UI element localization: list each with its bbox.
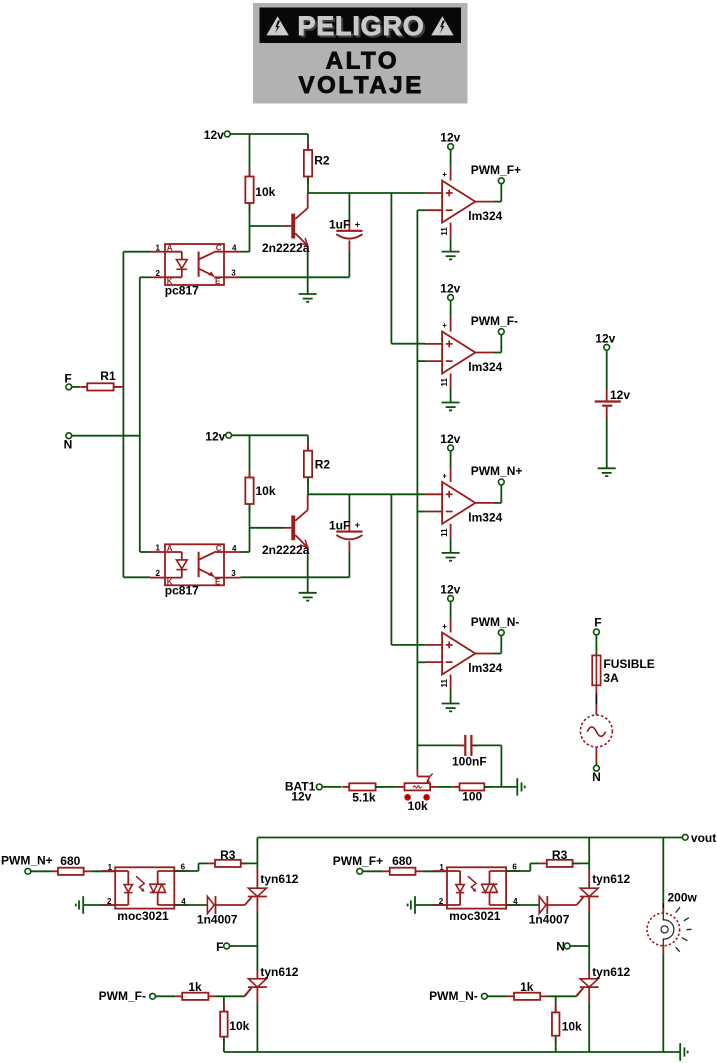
svg-text:11: 11: [440, 528, 449, 537]
wire N to column: [570, 945, 589, 947]
wire N node down to SCR4: [588, 946, 590, 971]
wire PWM_F+ to 680: [363, 870, 383, 872]
thyristor tyn612 (bottom-left): [248, 979, 266, 987]
svg-text:PELIGRO: PELIGRO: [297, 11, 424, 41]
wire op1- lead: [417, 209, 425, 211]
svg-text:lm324: lm324: [468, 511, 502, 525]
op-amp U (PWM_N+): [442, 482, 475, 524]
wire pc817 pin1 from F bus: [123, 251, 150, 253]
svg-text:moc3021: moc3021: [117, 909, 169, 923]
transistor Q2 2n2222a: [291, 515, 295, 540]
wire ground to moc pin2: [83, 904, 115, 906]
potentiometer 10k: [405, 783, 431, 790]
terminal vout: [682, 834, 688, 840]
svg-text:2n2222a: 2n2222a: [262, 241, 310, 255]
wire moc1 pin6 up to R3: [174, 870, 198, 872]
svg-text:PWM_F-: PWM_F-: [471, 314, 518, 328]
svg-text:11: 11: [440, 227, 449, 236]
wire op3- branch: [417, 511, 425, 513]
optocoupler U2 pc817: [165, 244, 224, 285]
svg-text:E: E: [215, 578, 221, 587]
pot mounting pad left: [404, 794, 411, 801]
wire 100 to ground: [484, 786, 517, 788]
ground ch2: [307, 577, 309, 593]
resistor 10k (ch1 base pullup): [249, 169, 251, 177]
wire pot to 100: [437, 786, 452, 788]
resistor 10k (left gate): [223, 1004, 225, 1012]
svg-text:12v: 12v: [291, 790, 311, 804]
wire bottom rail: [224, 1051, 680, 1053]
wire bus T to 100nF: [417, 744, 464, 746]
svg-text:R1: R1: [100, 369, 116, 383]
lamp rays: [676, 907, 680, 913]
svg-text:12v: 12v: [440, 282, 460, 296]
node ch2 collector wire: [308, 493, 425, 495]
svg-text:pc817: pc817: [165, 584, 199, 598]
svg-text:N: N: [592, 770, 601, 784]
danger sign black banner: [260, 8, 462, 44]
resistor 680 (left): [51, 870, 58, 872]
op-amp U (PWM_F-): [442, 332, 475, 374]
wire diode2 to gate: [548, 904, 577, 906]
wire PWM_N+ to 680: [31, 870, 51, 872]
wire rail to lamp: [662, 838, 664, 903]
wire anode node (right): [588, 838, 590, 870]
wire F to column: [230, 945, 258, 947]
wire pc817 pin4 to base node: [241, 251, 250, 253]
diode D2 1n4007: [539, 896, 546, 913]
wire battery to ground: [606, 407, 608, 418]
thyristor tyn612 (top-left): [248, 888, 266, 896]
wire SCR2 cathode to rail: [256, 987, 258, 1004]
wire N bus vertical: [139, 277, 141, 552]
battery BAT 12v: [595, 400, 621, 402]
svg-text:3: 3: [231, 569, 236, 578]
capacitor C2 1uF: [336, 531, 362, 533]
capacitor C2 bottom lead: [348, 541, 350, 552]
svg-text:C: C: [216, 244, 222, 253]
wire PWM_F- to 1k: [156, 995, 176, 997]
terminal PWM_F+: [475, 201, 494, 203]
svg-text:A: A: [167, 544, 173, 553]
resistor 100: [453, 786, 460, 788]
svg-text:680: 680: [392, 854, 412, 868]
svg-text:2: 2: [107, 897, 112, 906]
svg-text:R3: R3: [552, 848, 568, 862]
ground ch1: [307, 277, 309, 294]
svg-text:10k: 10k: [255, 185, 275, 199]
resistor 1k (right): [507, 995, 514, 997]
warning triangle left: [266, 16, 288, 35]
terminal N: [66, 433, 72, 439]
svg-text:1k: 1k: [520, 980, 534, 994]
svg-text:2: 2: [439, 897, 444, 906]
capacitor C1 1uF: [336, 230, 362, 232]
wire AC source to N: [595, 747, 597, 762]
wire moc2 pin4 to diode: [506, 904, 539, 906]
wire base node down to pc817 pin4: [249, 226, 251, 252]
wire F node down to SCR2: [256, 946, 258, 971]
wire pc817-2 pin2 from F bus: [123, 576, 150, 578]
svg-text:tyn612: tyn612: [260, 872, 298, 886]
svg-text:100: 100: [462, 789, 482, 803]
wire op1+/op2+ bus: [390, 193, 392, 344]
wire 10k to base node ch2: [249, 504, 251, 528]
svg-text:vout: vout: [691, 831, 716, 845]
svg-text:A: A: [167, 244, 173, 253]
svg-text:R3: R3: [220, 848, 236, 862]
wire pc817-2 pin4 to base node: [241, 551, 250, 553]
svg-text:10k: 10k: [562, 1019, 582, 1033]
wire base node to transistor: [250, 225, 284, 227]
danger sign background: [253, 3, 468, 104]
warning triangle right: [431, 16, 453, 35]
gate diagonal SCR2: [245, 988, 252, 997]
wire to 10k ch1: [249, 134, 251, 176]
wire R2 bottom to node ch2: [307, 478, 309, 495]
capacitor C1 1uF lead: [348, 193, 350, 222]
wire base node to transistor ch2: [250, 527, 284, 529]
wire moc2 pin6 up to R3: [506, 870, 530, 872]
thyristor tyn612 (top-right): [580, 888, 598, 896]
resistor R1: [72, 386, 80, 388]
svg-text:12v: 12v: [595, 332, 615, 346]
svg-text:+: +: [355, 219, 360, 229]
svg-text:PWM_F-: PWM_F-: [99, 989, 146, 1003]
ground (moc2 pin2): [414, 896, 416, 914]
ground (feedback, right): [516, 778, 518, 796]
svg-text:2n2222a: 2n2222a: [262, 543, 310, 557]
wire 12v to battery: [606, 350, 608, 390]
wire 12v ch2: [232, 434, 308, 436]
op-amp U (PWM_F+): [442, 181, 475, 223]
svg-text:1k: 1k: [188, 980, 202, 994]
capacitor C2 1uF lead: [348, 494, 350, 522]
svg-text:1: 1: [156, 243, 161, 252]
wire gate node down to 10k (right): [555, 996, 557, 1012]
AC source: [580, 715, 612, 747]
svg-text:3: 3: [231, 269, 236, 278]
wire BAT1 to 5.1k: [322, 786, 341, 788]
wire anode node: [256, 855, 258, 870]
wire 10k to bottom rail: [223, 1038, 225, 1052]
svg-text:1: 1: [439, 863, 444, 872]
svg-text:tyn612: tyn612: [260, 965, 298, 979]
potentiometer wiper arrow: [427, 777, 430, 783]
wire op2- branch: [417, 360, 425, 362]
svg-text:PWM_N+: PWM_N+: [471, 464, 523, 478]
svg-text:E: E: [215, 277, 221, 286]
svg-text:12v: 12v: [610, 388, 630, 402]
resistor 5.1k: [342, 786, 349, 788]
optocoupler U5 moc3021: [115, 867, 174, 908]
wire 680 to moc2 pin1: [423, 870, 448, 872]
wire 100nF to right corner: [472, 744, 501, 746]
svg-text:1uF: 1uF: [329, 519, 350, 533]
terminal PWM_F-: [475, 352, 494, 354]
optocoupler U6 moc3021: [447, 867, 506, 908]
diode D1 1n4007: [207, 896, 214, 913]
wire R3 to anode node (right): [573, 862, 589, 864]
ground (battery): [598, 467, 616, 469]
ground (moc1 pin2): [82, 896, 84, 914]
wire pc817-2 pin3 emitter rail: [241, 576, 350, 578]
terminal PWM_N+: [475, 502, 494, 504]
wire PWM_N- to 1k: [487, 995, 507, 997]
svg-text:N: N: [64, 438, 73, 452]
wire op3+/op4+ bus: [390, 494, 392, 645]
svg-text:PWM_N-: PWM_N-: [429, 989, 478, 1003]
optocoupler U3 pc817: [165, 544, 224, 585]
svg-text:moc3021: moc3021: [449, 909, 501, 923]
resistor R2 (ch2 collector): [307, 435, 309, 450]
svg-text:FUSIBLE: FUSIBLE: [603, 657, 654, 671]
gate diagonal SCR4: [577, 988, 584, 997]
svg-text:pc817: pc817: [165, 283, 199, 297]
svg-text:3A: 3A: [603, 671, 619, 685]
wire gate node down to 10k: [223, 996, 225, 1011]
svg-text:tyn612: tyn612: [592, 872, 630, 886]
wire SCR1 cathode to F node: [256, 897, 258, 913]
wire F bus vertical: [122, 252, 124, 578]
svg-text:lm324: lm324: [468, 661, 502, 675]
svg-text:+: +: [442, 170, 447, 179]
wire moc1 pin4 to diode: [174, 904, 207, 906]
wire pc817-2 pin1 from N bus: [140, 551, 150, 553]
fuse FUSIBLE 3A: [592, 655, 600, 685]
svg-text:PWM_N+: PWM_N+: [1, 854, 53, 868]
svg-text:PWM_N-: PWM_N-: [471, 615, 520, 629]
resistor 680 (right): [383, 870, 390, 872]
wire R2 bottom to node: [307, 177, 309, 193]
wire 5.1k to pot: [376, 786, 398, 788]
svg-text:C: C: [216, 544, 222, 553]
terminal N (mains): [594, 765, 600, 771]
svg-text:+: +: [442, 321, 447, 330]
svg-text:200w: 200w: [668, 891, 698, 905]
wire SCR3 cathode to N node: [588, 897, 590, 913]
wire base node down to pc817-2 pin4: [249, 528, 251, 552]
wire 680 to moc pin1: [91, 870, 116, 872]
thyristor tyn612 (bottom-right): [580, 979, 598, 987]
svg-text:R2: R2: [314, 154, 330, 168]
wire 10k to bottom rail (right): [555, 1037, 557, 1052]
svg-text:10k: 10k: [229, 1019, 249, 1033]
svg-text:12v: 12v: [440, 131, 460, 145]
terminal PWM_N-: [475, 653, 494, 655]
pin 11 / ground: [450, 223, 452, 238]
ground (bottom rail): [679, 1043, 681, 1061]
svg-text:ALTO: ALTO: [326, 47, 400, 74]
wire 10k to base node: [249, 203, 251, 226]
wire pc817 pin3 emitter rail ch1: [241, 276, 350, 278]
wire 12v ch1: [230, 133, 308, 135]
resistor R3 (right): [540, 862, 547, 864]
svg-text:+: +: [442, 622, 447, 631]
pot mounting pad right: [423, 794, 430, 801]
svg-text:11: 11: [440, 678, 449, 687]
wire R1 to F bus: [115, 386, 124, 388]
wire N to bus: [72, 435, 140, 437]
resistor 1k (left): [175, 995, 182, 997]
wire SCR4 cathode to rail: [588, 987, 590, 1004]
svg-text:11: 11: [440, 377, 449, 386]
svg-text:680: 680: [60, 854, 80, 868]
svg-text:2: 2: [156, 569, 161, 578]
resistor R3 (left): [208, 862, 215, 864]
svg-text:lm324: lm324: [468, 360, 502, 374]
pin 11 / ground: [450, 524, 452, 539]
svg-text:1uF: 1uF: [329, 218, 350, 232]
wire diode to gate: [216, 904, 245, 906]
svg-text:12v: 12v: [440, 432, 460, 446]
resistor 10k (ch2 base pullup): [249, 470, 251, 478]
wire R3 to anode node: [241, 862, 257, 864]
wire 1k to gate node (right): [547, 995, 576, 997]
transistor Q1 2n2222a: [291, 214, 295, 239]
pin 11 / ground: [450, 675, 452, 690]
node ch1 collector wire: [308, 192, 425, 194]
svg-text:1n4007: 1n4007: [197, 912, 238, 926]
wire op4- branch: [417, 661, 425, 663]
svg-text:tyn612: tyn612: [592, 965, 630, 979]
svg-text:VOLTAJE: VOLTAJE: [299, 72, 424, 99]
svg-text:4: 4: [232, 244, 237, 253]
svg-text:4: 4: [232, 544, 237, 553]
resistor R2 (ch1 collector): [307, 134, 309, 150]
svg-text:12v: 12v: [204, 128, 224, 142]
wire rail to R3 node (left): [256, 838, 258, 856]
wire inverting bus vertical: [416, 210, 418, 769]
wire F to fuse: [595, 635, 597, 656]
op-amp U (PWM_N-): [442, 633, 475, 675]
svg-text:1n4007: 1n4007: [529, 912, 570, 926]
svg-text:+: +: [442, 471, 447, 480]
svg-text:lm324: lm324: [468, 209, 502, 223]
wire pc817 pin2 from N bus: [140, 276, 150, 278]
wire ground to moc2 pin2: [415, 904, 447, 906]
svg-text:1: 1: [108, 863, 113, 872]
svg-text:+: +: [355, 520, 360, 530]
svg-text:R2: R2: [315, 458, 331, 472]
svg-text:5.1k: 5.1k: [352, 791, 376, 805]
capacitor C1 bottom lead: [348, 240, 350, 251]
svg-text:10k: 10k: [256, 484, 276, 498]
svg-text:F: F: [594, 615, 601, 629]
wire 1k to gate node: [215, 995, 244, 997]
wire lamp to bottom rail: [662, 946, 664, 954]
svg-text:PWM_F+: PWM_F+: [333, 854, 383, 868]
svg-text:PWM_F+: PWM_F+: [471, 163, 521, 177]
svg-text:10k: 10k: [408, 799, 428, 813]
wire top rail: [257, 837, 682, 839]
pin 11 / ground: [450, 374, 452, 389]
wire inverting bus to wiper: [416, 770, 418, 777]
svg-text:2: 2: [156, 269, 161, 278]
wire to 10k ch2: [249, 435, 251, 477]
svg-text:12v: 12v: [440, 583, 460, 597]
svg-text:12v: 12v: [205, 430, 225, 444]
svg-text:100nF: 100nF: [452, 754, 487, 768]
resistor 10k (right gate): [555, 1004, 557, 1012]
svg-text:1: 1: [156, 544, 161, 553]
wire fuse to AC source: [595, 685, 597, 693]
svg-text:F: F: [216, 940, 223, 954]
svg-text:F: F: [64, 371, 71, 385]
capacitor 100nF: [458, 744, 464, 746]
